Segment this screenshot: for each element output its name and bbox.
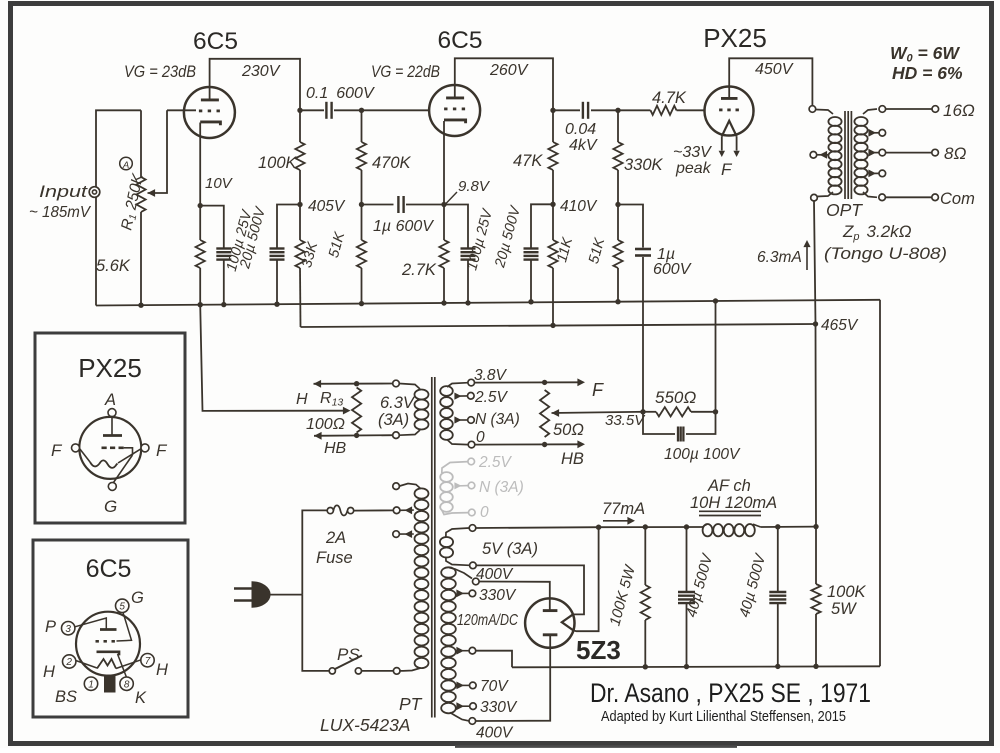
svg-text:VG = 22dB: VG = 22dB [371, 63, 440, 81]
resistor 2.7K cathode V2 [439, 205, 448, 304]
OPT secondary terminal Com tap [879, 194, 886, 201]
PT primary winding coil [400, 484, 429, 671]
node dot 50ohm top [542, 380, 547, 385]
PT HV tap 70V [456, 682, 476, 690]
wire ground bus right drop [879, 300, 881, 667]
ground bus wire [96, 300, 880, 306]
svg-text:120mA/DC: 120mA/DC [457, 612, 519, 629]
svg-text:5: 5 [119, 601, 125, 612]
svg-text:47K: 47K [513, 152, 543, 170]
svg-text:1µ 600V: 1µ 600V [373, 218, 434, 235]
svg-text:6.3V: 6.3V [380, 394, 416, 412]
node dot bleeder1 top [643, 524, 648, 529]
svg-text:Dr. Asano , PX25 SE , 1971: Dr. Asano , PX25 SE , 1971 [590, 678, 871, 708]
capacitor C10 40u 500V [678, 527, 695, 667]
wire 8ohm output [886, 152, 932, 154]
PT 2.5V terminal 0 [468, 441, 475, 448]
svg-text:330V: 330V [480, 699, 518, 716]
arrow 6.3mA [803, 240, 810, 270]
label 5V 3A [482, 540, 538, 558]
node dot bus x715 [713, 298, 718, 303]
svg-text:(Tongo U-808): (Tongo U-808) [824, 244, 947, 263]
label Fuse [316, 549, 353, 567]
switch PS [329, 656, 393, 675]
label H left 6C5 [43, 663, 55, 681]
node dot 410V [550, 202, 555, 207]
resistor 47K plate V2 [548, 110, 557, 204]
transformer OPT secondary coil [854, 109, 877, 197]
wire V1 cathode down [199, 123, 201, 206]
svg-text:5Z3: 5Z3 [576, 635, 621, 665]
PT 2.5V terminal 3.8V [468, 379, 475, 386]
svg-text:HB: HB [561, 450, 584, 468]
wire 465V rail [301, 324, 816, 327]
wire V1 anode to coupling node [210, 59, 300, 111]
svg-text:A: A [122, 160, 129, 171]
svg-text:BS: BS [55, 688, 77, 706]
svg-text:70V: 70V [480, 678, 509, 695]
wire 410V node to C6 [531, 204, 553, 248]
wire V2 plate to C7 [553, 109, 580, 111]
wire ground to R13 wiper [200, 305, 350, 415]
svg-text:~ 185mV: ~ 185mV [29, 204, 91, 221]
OPT output terminal 16ohm [932, 106, 939, 113]
svg-text:F: F [51, 441, 63, 460]
node dot V2 plate junction [550, 108, 555, 113]
choke AF ch 10H 120mA [699, 511, 761, 536]
node dot choke out at B+ vert [813, 524, 818, 529]
wire plug to split [270, 594, 303, 596]
capacitor C6 20u 500V [524, 249, 539, 260]
capacitor C5 100u 25V [461, 249, 476, 260]
wire heater H rail [314, 380, 393, 388]
label 330V top [479, 587, 517, 604]
node dot 465V at OPT lead [813, 321, 818, 326]
svg-text:Fuse: Fuse [316, 549, 353, 567]
label 100K 5W rotated [606, 562, 639, 628]
svg-text:H: H [43, 663, 55, 681]
svg-text:100Ω: 100Ω [306, 416, 345, 433]
PT primary terminal top open [393, 483, 400, 490]
PX25 pinout grid to G [114, 455, 133, 483]
label 5.6K [96, 257, 131, 275]
svg-text:405V: 405V [308, 198, 346, 215]
wire 16ohm output [886, 108, 932, 110]
svg-text:10V: 10V [205, 175, 234, 192]
wire V2 anode to plate node [455, 58, 553, 110]
label W0=6W [890, 43, 960, 65]
PT 2.5V tap N [454, 416, 474, 423]
label 51K rotated [326, 229, 348, 259]
6C5 pinout cathode [97, 652, 127, 678]
svg-text:6C5: 6C5 [438, 27, 483, 54]
label 3.8V [474, 367, 508, 384]
6C5 pin 7 [141, 654, 154, 667]
wire choke to output node [761, 526, 816, 528]
label Input [39, 183, 89, 201]
svg-text:A: A [104, 391, 116, 409]
OPT secondary terminal 16ohm tap [879, 106, 886, 113]
resistor 5.6K cathode V1 [196, 206, 205, 305]
svg-text:G: G [131, 589, 144, 607]
6C5 pinout grid [96, 612, 132, 641]
PT HV winding coil [441, 567, 472, 721]
svg-text:2.5V: 2.5V [478, 454, 513, 471]
svg-text:550Ω: 550Ω [655, 388, 696, 407]
label 9.8V with pointer [446, 178, 491, 204]
PT primary tap fuse [393, 506, 413, 514]
node dot R13 top [354, 381, 359, 386]
svg-text:600V: 600V [653, 261, 692, 278]
svg-text:2: 2 [65, 657, 72, 668]
wire V1 cathode to C1 [200, 206, 224, 248]
svg-text:4kV: 4kV [569, 137, 598, 154]
label 33K rotated [299, 239, 321, 269]
6C5 pin 3 [61, 622, 74, 635]
svg-text:450V: 450V [755, 61, 794, 78]
PT unused tap N grey [454, 482, 474, 489]
capacitor C9 100u 100V [643, 412, 716, 442]
PX25 pin F right [141, 444, 149, 452]
label R1 250K rotated [118, 172, 148, 232]
label LUX-5423A [320, 715, 410, 735]
label PX25 pinout [78, 353, 142, 383]
transformer OPT core [845, 111, 851, 199]
label 77mA [602, 500, 645, 518]
label 2.5V [474, 389, 509, 406]
6C5 pin 8 [120, 677, 133, 690]
svg-text:(3A): (3A) [378, 411, 409, 429]
capacitor C7 0.04 4kV [583, 102, 588, 119]
label Adapted by [601, 709, 846, 725]
capacitor C3 0.1 600V [326, 102, 331, 119]
label 600V C8 [653, 261, 692, 278]
svg-text:0.04: 0.04 [565, 121, 596, 138]
PT 6.3V terminal bottom [393, 432, 400, 439]
node dot PX25 grid junction [615, 108, 620, 113]
svg-text:330V: 330V [479, 587, 517, 604]
node dot C5 at bus [465, 300, 470, 305]
label 4kV [569, 137, 598, 154]
PX25 pin G [108, 482, 116, 490]
OPT secondary tap 8ohm [868, 149, 885, 157]
wire B+ rail [599, 526, 703, 528]
svg-text:PX25: PX25 [703, 23, 767, 53]
label 400V bottom [476, 725, 514, 742]
label 120mA/DC [457, 612, 519, 629]
node dot B+ takeoff [596, 525, 601, 530]
label HB [324, 440, 347, 457]
node dot 550 right [713, 409, 718, 414]
svg-text:0.1600V: 0.1600V [306, 85, 375, 102]
node dot C2 at bus [274, 302, 279, 307]
node dot C6 at bus [528, 299, 533, 304]
label 5W bleeder2 [831, 600, 857, 618]
node dot V2 cathode 9.8V [441, 202, 446, 207]
svg-text:330K: 330K [624, 156, 664, 174]
wire 5V top to B+ junction [476, 526, 599, 529]
wire V2 cathode to C5 [444, 205, 468, 249]
PX25 pinout filament [80, 449, 142, 468]
wire 5Z3 filament to B+ [574, 527, 599, 631]
wire grid to V2 [362, 109, 430, 111]
label VG=22dB [371, 63, 440, 81]
PT HV terminal 400V top [473, 578, 480, 585]
label P 6C5 [45, 618, 56, 636]
svg-text:F: F [156, 441, 168, 460]
svg-text:PT: PT [399, 694, 423, 714]
PT 5V winding coil [440, 528, 469, 565]
wire input sleeve to ground bus [95, 198, 97, 306]
node dot R1 bottom at bus [138, 303, 143, 308]
node dot 5.6K at bus [198, 302, 203, 307]
node dot C11 top [775, 524, 780, 529]
PT HV terminal 400V bottom [469, 718, 476, 725]
label N 3A grey [479, 479, 524, 496]
label 5Z3 [576, 635, 621, 665]
wire R1 wiper to V1 grid [167, 109, 196, 111]
6C5 pinout box frame [33, 540, 188, 717]
PX25 base circle [79, 417, 141, 479]
svg-text:2.7K: 2.7K [401, 261, 437, 279]
PT 2.5V tap 2.5V [454, 393, 474, 400]
svg-text:OPT: OPT [826, 200, 863, 220]
PT unused terminal 2.5V grey [468, 458, 475, 465]
wire input top to R1 [96, 110, 141, 186]
PT unused winding coil grey [440, 462, 468, 515]
6C5 pin 5 [116, 599, 129, 612]
label R13 [320, 390, 343, 409]
label 0 grey [480, 504, 489, 521]
label 4.7K [652, 89, 687, 107]
svg-text:16Ω: 16Ω [943, 101, 975, 120]
wire 33.5V node vertical [0, 0, 1, 1]
node dot 33.5V [640, 409, 645, 414]
svg-text:H: H [156, 661, 168, 679]
label PT [399, 694, 423, 714]
resistor 51K grid divider [357, 205, 366, 304]
svg-text:8: 8 [124, 679, 130, 690]
label 50ohm [553, 421, 584, 439]
label H [296, 391, 308, 408]
node dot 51K PX25 at bus [615, 299, 620, 304]
label G pin [104, 497, 117, 516]
svg-text:230V: 230V [241, 63, 281, 80]
label 410V [560, 198, 598, 215]
resistor 11K decoupling [548, 204, 557, 325]
label 100u 25V rotated V2 [464, 206, 496, 272]
label 16ohm [943, 101, 975, 120]
wire 50ohm wiper 33.5V [552, 409, 644, 417]
label AF ch [707, 477, 751, 495]
resistor 550ohm cathode bias [643, 407, 716, 416]
svg-text:F: F [721, 160, 733, 179]
label F right [592, 380, 604, 400]
node dot 50ohm bottom [542, 442, 547, 447]
OPT output terminal 8ohm [932, 149, 939, 156]
svg-text:100K: 100K [827, 583, 867, 601]
label Com [940, 190, 975, 208]
label 51K rotated PX25 [586, 235, 608, 265]
PT HV tap 330V bottom [456, 702, 476, 710]
PT 2.5V winding coil [440, 383, 468, 445]
PT unused terminal 0 grey [469, 509, 476, 516]
svg-text:5V (3A): 5V (3A) [482, 540, 538, 558]
label 100K bleeder2 [827, 583, 867, 601]
PT 6.3V winding coil [399, 384, 428, 436]
label F filament [721, 160, 733, 179]
label N 3A [475, 411, 520, 428]
label 6.3V [380, 394, 416, 412]
label 470K [372, 154, 412, 172]
bottom ground bus [512, 666, 880, 667]
label 230V [241, 63, 281, 80]
node dot C11 bottom [775, 664, 780, 669]
scan artifact line bottom [455, 745, 737, 748]
label K 6C5 [135, 689, 147, 707]
6C5 base circle [76, 612, 140, 676]
svg-text:AF ch: AF ch [707, 477, 751, 495]
label 6C5 V1 [193, 28, 238, 55]
resistor 330K grid [613, 110, 622, 204]
PX25 filament lead F right [733, 136, 739, 157]
label 100K [258, 154, 298, 172]
6C5 pin 1 [84, 677, 97, 690]
svg-text:6C5: 6C5 [193, 28, 238, 55]
resistor R13 100ohm hum pot [352, 388, 361, 433]
wire PX25 anode to OPT [729, 58, 812, 105]
node dot 330K-51K junction [615, 202, 620, 207]
resistor 51K grid divider PX25 [613, 205, 622, 302]
label 2.5V grey [478, 454, 513, 471]
tube V4 5Z3 rectifier [525, 598, 574, 647]
svg-text:0: 0 [480, 504, 489, 521]
node dot 11K at 465V line [550, 323, 555, 328]
wire 405V node to C2 [277, 205, 300, 249]
svg-text:peak: peak [675, 160, 712, 177]
label H right 6C5 [156, 661, 168, 679]
wire V2 cathode down [443, 121, 445, 205]
wire C7 to PX25 grid node [591, 109, 618, 111]
svg-text:F: F [592, 380, 604, 400]
wire AC down to switch [302, 595, 329, 671]
label A pin [104, 391, 116, 409]
transformer OPT primary tap mid [810, 151, 828, 159]
input jack J1 [89, 187, 100, 198]
svg-text:~33V: ~33V [673, 144, 712, 161]
label G 6C5 [131, 589, 144, 607]
svg-text:50Ω: 50Ω [553, 421, 584, 439]
label 1u 600V [373, 218, 434, 235]
wire 550 right to ground bus [715, 301, 717, 412]
svg-text:W0 = 6W: W0 = 6W [890, 43, 960, 65]
6C5 pinout anode [75, 618, 117, 630]
potentiometer R1 250K [136, 110, 145, 305]
node dot bleeder1 bottom [643, 664, 648, 669]
capacitor C11 40u 500V [769, 527, 786, 667]
svg-text:9.8V: 9.8V [458, 178, 491, 195]
label 330K [624, 156, 664, 174]
label 2A [325, 529, 346, 547]
label 100u 100V [664, 446, 741, 463]
label 260V [489, 62, 529, 79]
node dot C10 top [684, 524, 689, 529]
wire 3.8V to F [475, 378, 585, 386]
svg-text:PX25: PX25 [78, 353, 142, 383]
wire C2 to bus [276, 260, 278, 304]
svg-text:1: 1 [88, 679, 94, 690]
svg-text:Input: Input [39, 183, 89, 201]
node dot R13 bottom [354, 433, 359, 438]
label 100ohm [306, 416, 345, 433]
svg-text:5W: 5W [831, 600, 857, 618]
label BS 6C5 [55, 688, 77, 706]
wire C1 to bus [223, 260, 225, 305]
label 40u 500V C11 [736, 551, 770, 620]
OPT secondary tap4 [868, 170, 885, 178]
PT HV tap 330V top [456, 590, 475, 598]
capacitor C8 1u 600V to cathode node [618, 205, 651, 412]
label 47K [513, 152, 543, 170]
svg-text:10H 120mA: 10H 120mA [690, 494, 777, 512]
svg-text:2A: 2A [325, 529, 346, 547]
OPT secondary tap2 [868, 129, 885, 137]
label 20u 500V rotated [237, 204, 269, 271]
label 11K rotated [554, 235, 576, 264]
label 450V [755, 61, 794, 78]
svg-text:400V: 400V [476, 725, 514, 742]
svg-text:470K: 470K [372, 154, 412, 172]
label 465V [821, 317, 859, 334]
capacitor C1 100u 25V [216, 249, 231, 260]
svg-text:HD = 6%: HD = 6% [892, 63, 963, 83]
wire heater HB rail [314, 432, 393, 440]
svg-text:P: P [45, 618, 56, 636]
wire C3 to V2 grid node [334, 109, 362, 111]
svg-text:LUX-5423A: LUX-5423A [320, 715, 410, 735]
label 6C5 pinout [86, 555, 132, 583]
fuse 2A [327, 505, 393, 515]
svg-text:33.5V: 33.5V [605, 412, 646, 429]
tube V3 PX25 [705, 86, 754, 136]
svg-text:77mA: 77mA [602, 500, 645, 518]
node dot V1 cathode [198, 203, 203, 208]
wire AC up to fuse [302, 510, 327, 594]
wire Com output [886, 196, 932, 198]
label HB right [561, 450, 584, 468]
6C5 pinout filament [76, 659, 141, 669]
PX25 pin F left [72, 444, 80, 452]
6C5 pinout base tab [104, 675, 116, 693]
label 10V [205, 175, 234, 192]
svg-text:Com: Com [940, 190, 975, 208]
label Dr. Asano PX25 SE 1971 [590, 678, 871, 708]
label 70V [480, 678, 509, 695]
R1 wiper arrow [148, 110, 168, 197]
capacitor C2 20u 500V [270, 249, 285, 260]
wire 400Vtop to 5Z3 plate [479, 582, 550, 611]
tube V2 6C5 triode [429, 85, 480, 137]
PX25 pin A [108, 409, 116, 417]
svg-text:100µ 100V: 100µ 100V [664, 446, 741, 463]
node dot 51K at bus [359, 301, 364, 306]
label ~33V peak [673, 144, 712, 177]
label 0.1 600V [306, 85, 375, 102]
svg-text:7: 7 [145, 656, 151, 667]
svg-text:5.6K: 5.6K [96, 257, 131, 275]
OPT output terminal Com [932, 194, 939, 201]
label 400V top [476, 566, 514, 583]
